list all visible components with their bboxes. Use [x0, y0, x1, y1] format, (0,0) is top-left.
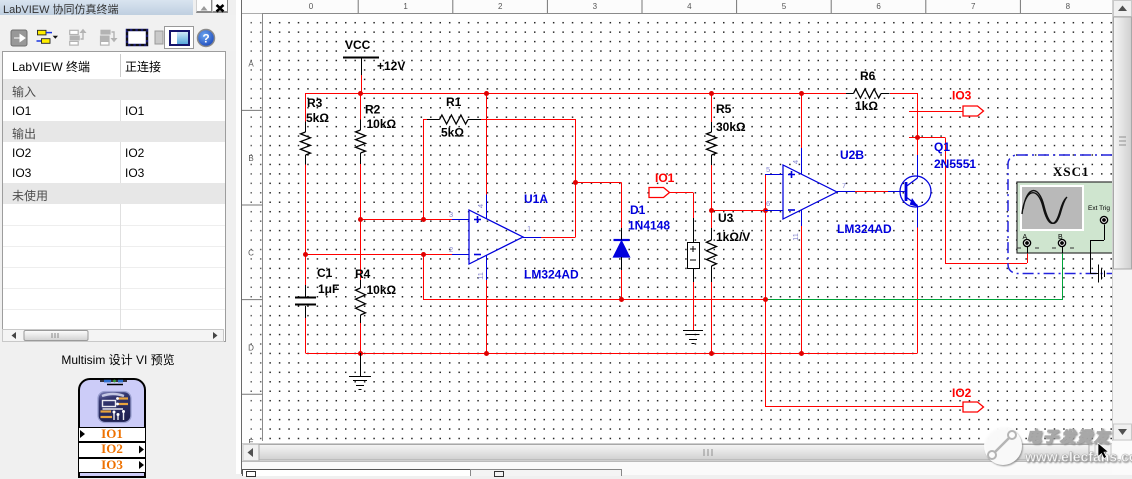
svg-text:3: 3 [593, 2, 598, 11]
svg-text:C: C [248, 249, 254, 258]
svg-text:www.elecfans.com: www.elecfans.com [1024, 449, 1132, 465]
svg-text:D: D [248, 343, 254, 352]
svg-text:?: ? [202, 32, 209, 46]
svg-text:1: 1 [403, 2, 408, 11]
svg-text:B: B [248, 154, 253, 163]
svg-text:6: 6 [876, 2, 881, 11]
svg-text:4: 4 [687, 2, 692, 11]
svg-text:5: 5 [782, 2, 787, 11]
svg-text:A: A [248, 60, 254, 69]
svg-text:0: 0 [309, 2, 314, 11]
svg-text:7: 7 [971, 2, 976, 11]
svg-text:2: 2 [498, 2, 503, 11]
svg-text:8: 8 [1066, 2, 1071, 11]
